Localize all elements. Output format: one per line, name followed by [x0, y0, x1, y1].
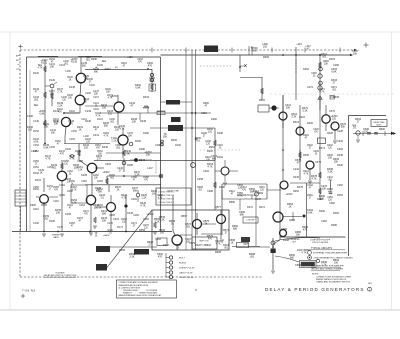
svg-text:C484: C484 [321, 220, 327, 223]
svg-text:MULT: MULT [376, 125, 382, 127]
svg-text:3.3K: 3.3K [129, 256, 134, 259]
svg-text:CIRCUIT SHOWN: CIRCUIT SHOWN [312, 242, 329, 244]
svg-text:D130: D130 [49, 79, 56, 82]
svg-text:D472: D472 [247, 206, 253, 209]
svg-text:4.7K: 4.7K [216, 244, 221, 246]
svg-text:C268: C268 [333, 64, 339, 67]
svg-text:56K: 56K [133, 190, 138, 193]
svg-text:470: 470 [148, 65, 153, 68]
svg-text:10K: 10K [186, 242, 191, 244]
svg-text:R567: R567 [181, 215, 188, 218]
svg-text:R580: R580 [229, 201, 236, 204]
svg-text:MEASURED AS INDICATED WITH: MEASURED AS INDICATED WITH [119, 284, 149, 287]
svg-text:D212: D212 [253, 190, 259, 193]
svg-text:2.2K: 2.2K [321, 264, 326, 267]
svg-text:C146: C146 [33, 120, 39, 123]
svg-text:.01: .01 [66, 181, 70, 184]
svg-text:R230: R230 [91, 58, 97, 61]
svg-text:R156: R156 [75, 150, 81, 153]
svg-text:.001: .001 [34, 99, 39, 102]
svg-text:56K: 56K [82, 65, 87, 68]
svg-text:R182: R182 [135, 140, 141, 143]
svg-text:DELAY & PERIOD GENERATORS: DELAY & PERIOD GENERATORS [265, 287, 365, 292]
svg-text:C168: C168 [133, 215, 139, 217]
svg-text:10K: 10K [56, 212, 61, 215]
svg-text:C234: C234 [337, 140, 343, 143]
svg-text:C166: C166 [109, 215, 115, 217]
svg-text:D144: D144 [97, 119, 103, 121]
svg-text:+100V: +100V [146, 213, 154, 216]
svg-text:C274: C274 [307, 86, 313, 89]
svg-text:2K: 2K [126, 153, 129, 156]
svg-text:C140: C140 [27, 115, 34, 118]
svg-text:470: 470 [158, 256, 163, 259]
svg-text:470: 470 [208, 238, 213, 241]
svg-text:C486: C486 [281, 228, 287, 231]
svg-text:D282: D282 [211, 118, 217, 121]
svg-text:.001: .001 [186, 226, 191, 229]
svg-text:1K: 1K [230, 242, 233, 245]
svg-text:SEL: SEL [34, 104, 39, 107]
svg-text:C224: C224 [299, 116, 305, 119]
svg-text:10K: 10K [50, 66, 55, 69]
svg-text:C590: C590 [295, 264, 302, 267]
svg-text:R374: R374 [319, 147, 326, 150]
svg-text:R132: R132 [33, 72, 39, 75]
svg-text:C208: C208 [207, 190, 213, 193]
svg-text:6.8K: 6.8K [251, 50, 256, 53]
svg-text:D198: D198 [217, 132, 223, 135]
svg-text:.001: .001 [250, 256, 255, 259]
svg-text:C172: C172 [107, 222, 113, 225]
svg-text:4.7K: 4.7K [119, 128, 124, 131]
svg-text:R135: R135 [71, 61, 78, 64]
svg-text:27K: 27K [97, 158, 102, 161]
svg-text:R234: R234 [143, 96, 150, 99]
svg-text:SEL: SEL [50, 94, 55, 96]
svg-text:LOW IMP: LOW IMP [246, 220, 255, 222]
svg-text:R168: R168 [49, 220, 55, 223]
svg-text:MULT: MULT [179, 258, 185, 260]
svg-text:.001: .001 [332, 90, 337, 92]
svg-text:4.7K: 4.7K [320, 92, 325, 94]
svg-text:6.8K: 6.8K [39, 113, 44, 116]
svg-text:100: 100 [152, 193, 157, 196]
svg-text:R310: R310 [259, 99, 266, 102]
svg-text:10K: 10K [324, 64, 329, 66]
svg-text:Q577: Q577 [215, 206, 222, 209]
svg-text:D482: D482 [319, 210, 325, 213]
svg-text:GATE: GATE [53, 236, 59, 239]
svg-text:3.3K: 3.3K [71, 202, 76, 205]
svg-text:COIL: COIL [149, 80, 155, 83]
svg-text:Q386: Q386 [289, 219, 296, 222]
svg-text:.001: .001 [110, 178, 115, 180]
svg-text:R214: R214 [237, 194, 243, 197]
svg-text:.001: .001 [224, 248, 229, 250]
svg-text:1K: 1K [69, 80, 72, 82]
svg-text:3.3K: 3.3K [327, 171, 332, 174]
svg-text:10K: 10K [128, 136, 133, 138]
svg-text:+119: +119 [296, 43, 302, 46]
svg-text:CONNECTIONS SHOWN AT LOWER: CONNECTIONS SHOWN AT LOWER [316, 275, 352, 278]
svg-text:7-06 NS: 7-06 NS [22, 289, 36, 293]
svg-text:R148: R148 [85, 120, 91, 123]
svg-text:R246: R246 [337, 164, 343, 167]
svg-text:15K: 15K [51, 132, 56, 135]
svg-text:C394: C394 [337, 148, 344, 151]
svg-text:C284: C284 [201, 112, 207, 115]
svg-text:C155: C155 [65, 213, 72, 216]
svg-text:SWEEP PULSE: SWEEP PULSE [179, 268, 195, 270]
svg-text:470: 470 [60, 153, 65, 156]
svg-text:L247: L247 [147, 167, 153, 170]
svg-text:+225V: +225V [110, 95, 118, 98]
svg-text:2.2K: 2.2K [141, 197, 146, 200]
svg-text:10K: 10K [206, 160, 211, 162]
svg-text:GATE PULSE: GATE PULSE [179, 272, 193, 275]
svg-text:COMPLETE PICKOFF: COMPLETE PICKOFF [310, 240, 331, 242]
svg-text:A. CONTROL SETTINGS: A. CONTROL SETTINGS [119, 286, 141, 289]
svg-text:3.3K: 3.3K [159, 219, 164, 222]
svg-text:.001: .001 [116, 148, 121, 150]
svg-text:.01: .01 [170, 223, 174, 226]
svg-text:100: 100 [28, 129, 33, 132]
svg-text:C472: C472 [255, 198, 261, 201]
svg-text:1K: 1K [116, 189, 119, 192]
svg-text:C245: C245 [127, 212, 134, 215]
svg-text:R484: R484 [333, 212, 339, 215]
svg-text:NOTE:: NOTE: [312, 274, 319, 276]
svg-text:4.7K: 4.7K [45, 158, 50, 161]
svg-text:.01: .01 [100, 197, 104, 200]
svg-text:.01: .01 [108, 232, 112, 235]
svg-text:SWP OUT: SWP OUT [199, 241, 209, 243]
svg-text:CONNECTIONS AND VOLTAGES SHOWN: CONNECTIONS AND VOLTAGES SHOWN AT [119, 281, 159, 284]
svg-text:56K: 56K [240, 214, 245, 217]
svg-text:470: 470 [303, 229, 308, 232]
svg-text:SEL: SEL [102, 60, 107, 63]
svg-text:4.7K: 4.7K [311, 178, 316, 181]
svg-text:D156: D156 [97, 181, 103, 183]
svg-text:SEE PARTS LIST FOR EARLIER: SEE PARTS LIST FOR EARLIER [311, 265, 344, 268]
svg-text:C231: C231 [93, 134, 100, 137]
svg-text:.001: .001 [328, 180, 333, 182]
svg-text:1K: 1K [39, 172, 42, 175]
svg-text:R228: R228 [327, 132, 333, 135]
svg-text:+100V: +100V [102, 171, 110, 174]
svg-text:C158: C158 [77, 160, 83, 163]
svg-text:C152: C152 [71, 130, 77, 133]
svg-text:R151: R151 [35, 179, 42, 182]
svg-text:.001: .001 [198, 190, 203, 192]
svg-text:R218: R218 [163, 244, 169, 247]
svg-text:R254: R254 [209, 146, 216, 149]
svg-text:D135: D135 [97, 65, 103, 67]
svg-text:R144: R144 [53, 110, 59, 113]
svg-text:WAVEFORMS AND DELAY WITH OPERA: WAVEFORMS AND DELAY WITH OPERATION AT [119, 294, 163, 297]
svg-text:.001: .001 [322, 56, 327, 59]
svg-text:4.7K: 4.7K [207, 166, 212, 169]
svg-text:10K: 10K [94, 93, 99, 96]
svg-text:56K: 56K [104, 125, 109, 128]
svg-text:R558: R558 [119, 249, 126, 252]
svg-text:120: 120 [364, 131, 369, 134]
svg-text:15K: 15K [353, 53, 358, 56]
svg-text:4.7K: 4.7K [72, 190, 77, 192]
svg-text:C148: C148 [49, 147, 55, 149]
svg-text:C139: C139 [85, 110, 92, 113]
svg-text:680: 680 [290, 257, 295, 260]
svg-text:15K: 15K [146, 154, 151, 157]
svg-text:4.7K: 4.7K [104, 136, 109, 138]
svg-text:R162: R162 [33, 172, 39, 175]
svg-text:6.8K: 6.8K [307, 212, 312, 215]
svg-text:10K: 10K [54, 123, 59, 126]
svg-text:4.7K: 4.7K [69, 158, 74, 161]
svg-text:D243: D243 [139, 159, 146, 162]
svg-text:120: 120 [94, 207, 99, 210]
svg-text:R486: R486 [331, 224, 337, 227]
svg-text:R254: R254 [337, 194, 343, 197]
svg-text:C162: C162 [53, 201, 59, 203]
svg-text:L140: L140 [83, 135, 89, 138]
svg-text:(B): (B) [115, 67, 118, 69]
svg-text:.01: .01 [352, 127, 356, 130]
svg-text:D186: D186 [139, 148, 145, 151]
svg-text:3.3K: 3.3K [302, 110, 307, 113]
svg-text:K600: K600 [30, 204, 36, 207]
svg-text:R186: R186 [127, 164, 133, 167]
svg-text:C216: C216 [155, 238, 161, 241]
svg-text:1K: 1K [204, 223, 207, 226]
svg-text:L136: L136 [65, 70, 71, 73]
svg-text:D264: D264 [303, 68, 309, 71]
svg-text:D182: D182 [143, 132, 149, 135]
svg-text:C136: C136 [89, 85, 95, 87]
svg-text:1K: 1K [78, 129, 81, 132]
svg-text:C258: C258 [197, 178, 204, 181]
svg-text:+100V: +100V [285, 193, 293, 196]
svg-text:TIMING AND INCREMENT SWITCH: TIMING AND INCREMENT SWITCH [316, 281, 350, 284]
svg-text:4.7K: 4.7K [121, 197, 126, 200]
svg-text:R226: R226 [307, 122, 313, 125]
svg-text:C482: C482 [329, 202, 335, 205]
svg-text:Q150: Q150 [59, 194, 66, 197]
svg-text:+100V: +100V [103, 68, 111, 71]
svg-text:C203: C203 [105, 163, 112, 166]
svg-text:LOGIC PULSE: LOGIC PULSE [179, 277, 194, 279]
svg-text:470: 470 [69, 123, 74, 126]
svg-text:D238: D238 [337, 154, 343, 157]
svg-text:D204: D204 [217, 156, 223, 159]
svg-text:D148: D148 [65, 149, 71, 151]
svg-text:120: 120 [208, 131, 213, 134]
svg-text:100: 100 [102, 107, 107, 110]
svg-text:C156: C156 [81, 181, 87, 183]
svg-text:4.7K: 4.7K [38, 68, 43, 70]
svg-text:VALUES AND SERIAL NUMBER: VALUES AND SERIAL NUMBER [311, 268, 343, 271]
svg-text:120: 120 [332, 118, 337, 121]
svg-text:C138: C138 [85, 93, 91, 95]
svg-text:R202: R202 [207, 150, 213, 153]
svg-text:D208: D208 [219, 186, 225, 189]
svg-text:D246: D246 [293, 176, 299, 179]
svg-text:.01: .01 [196, 140, 200, 143]
svg-text:R164: R164 [33, 188, 39, 191]
svg-text:R178: R178 [41, 204, 47, 207]
svg-text:C372: C372 [315, 161, 322, 164]
svg-text:.001: .001 [64, 64, 69, 66]
svg-text:680: 680 [102, 213, 107, 216]
svg-text:100: 100 [320, 198, 325, 201]
svg-text:.001: .001 [110, 122, 115, 124]
svg-text:R222: R222 [195, 244, 201, 247]
svg-text:RELAY AND SWITCH CONDITIONS: RELAY AND SWITCH CONDITIONS [44, 274, 77, 277]
svg-text:SWEEP RATES POSITIONS OF: SWEEP RATES POSITIONS OF [316, 278, 347, 281]
svg-text:C166: C166 [33, 222, 39, 225]
svg-text:10K: 10K [68, 98, 73, 100]
svg-text:15K: 15K [163, 136, 168, 139]
svg-text:D192: D192 [175, 144, 181, 147]
svg-text:+12V: +12V [127, 56, 133, 59]
svg-text:56K: 56K [341, 126, 346, 129]
svg-text:1K: 1K [288, 206, 291, 209]
svg-text:100: 100 [334, 262, 339, 265]
svg-text:1 DELAY TIME 5.0: 1 DELAY TIME 5.0 [158, 201, 174, 204]
svg-text:680: 680 [212, 158, 217, 161]
svg-text:4.7K: 4.7K [301, 252, 306, 255]
svg-text:10K: 10K [106, 92, 111, 94]
svg-text:C164: C164 [59, 184, 65, 187]
svg-text:C228: C228 [337, 130, 343, 133]
svg-text:C215: C215 [113, 218, 120, 221]
svg-text:C252: C252 [337, 184, 343, 187]
svg-text:C142: C142 [93, 109, 99, 111]
svg-text:OUT: OUT [243, 243, 249, 246]
svg-text:680: 680 [94, 71, 99, 74]
svg-text:2.2K: 2.2K [291, 116, 296, 119]
svg-text:R236: R236 [303, 154, 309, 157]
svg-text:D142: D142 [69, 111, 75, 113]
svg-text:15K: 15K [44, 126, 49, 129]
svg-text:10K: 10K [132, 121, 137, 124]
svg-text:C145: C145 [31, 150, 38, 153]
svg-text:.001: .001 [52, 167, 57, 170]
svg-text:VOLTAGE: VOLTAGE [55, 271, 65, 274]
svg-text:15K: 15K [74, 167, 79, 170]
svg-text:470: 470 [96, 190, 101, 193]
svg-text:10K: 10K [102, 220, 107, 223]
svg-text:DELAY TIME: DELAY TIME [167, 190, 179, 193]
svg-text:C164: C164 [79, 205, 85, 207]
svg-text:10K: 10K [328, 158, 333, 160]
svg-text:D588: D588 [215, 251, 222, 254]
svg-text:C188: C188 [155, 144, 161, 147]
svg-text:D168: D168 [143, 219, 149, 221]
svg-text:4.7K: 4.7K [304, 174, 309, 176]
svg-text:D230: D230 [102, 146, 109, 149]
svg-text:100: 100 [160, 232, 165, 235]
svg-text:C242: C242 [293, 168, 299, 171]
svg-text:3.3K: 3.3K [78, 170, 83, 172]
svg-text:10K: 10K [286, 107, 291, 110]
svg-text:C204: C204 [203, 170, 209, 173]
svg-text:D378: D378 [297, 186, 304, 189]
svg-text:R390: R390 [379, 128, 386, 131]
svg-text:680: 680 [233, 228, 238, 231]
svg-text:R324: R324 [293, 121, 300, 124]
svg-text:10K: 10K [322, 188, 327, 191]
svg-text:R174: R174 [117, 226, 123, 229]
svg-text:C205: C205 [81, 174, 88, 177]
svg-text:R250: R250 [171, 139, 178, 142]
svg-text:D238: D238 [140, 120, 147, 123]
svg-text:4.7K: 4.7K [158, 198, 163, 200]
svg-text:D136: D136 [69, 86, 76, 89]
svg-text:2.2K: 2.2K [111, 140, 116, 143]
svg-text:C172: C172 [93, 97, 99, 99]
svg-text:R303: R303 [329, 58, 336, 61]
svg-text:R474: R474 [259, 206, 265, 209]
svg-text:R152: R152 [33, 130, 39, 133]
svg-text:C220: C220 [131, 198, 138, 201]
svg-text:120: 120 [108, 113, 113, 116]
svg-text:STABILITY . . . . . . PRESET M: STABILITY . . . . . . PRESET MODE AND [123, 292, 158, 295]
svg-text:C146: C146 [69, 139, 75, 141]
svg-text:C154: C154 [33, 144, 39, 147]
svg-text:10K: 10K [94, 178, 99, 180]
svg-text:C176: C176 [57, 226, 63, 229]
svg-text:BLANK: BLANK [179, 262, 187, 265]
svg-text:EXTERNAL TRIGGER AMPLIFIER: EXTERNAL TRIGGER AMPLIFIER [313, 252, 347, 255]
svg-text:R252: R252 [293, 190, 299, 193]
svg-text:15K: 15K [296, 234, 301, 237]
svg-text:2.2K: 2.2K [57, 105, 62, 108]
svg-text:6.8K: 6.8K [43, 147, 48, 150]
svg-text:R305: R305 [333, 96, 340, 99]
svg-text:2.7K: 2.7K [57, 91, 62, 94]
svg-text:4.7K: 4.7K [140, 205, 145, 208]
svg-text:R300: R300 [263, 56, 270, 59]
svg-text:6.8K: 6.8K [331, 71, 336, 74]
svg-text:6.8K: 6.8K [135, 87, 140, 90]
svg-text:100: 100 [263, 46, 268, 49]
svg-text:D164: D164 [33, 209, 39, 211]
svg-text:C370: C370 [329, 110, 336, 113]
svg-text:C222: C222 [205, 244, 211, 247]
svg-text:100: 100 [84, 147, 89, 150]
svg-text:4.7K: 4.7K [96, 116, 101, 118]
svg-text:TYPICAL CIRCUITS: TYPICAL CIRCUITS [311, 247, 332, 250]
